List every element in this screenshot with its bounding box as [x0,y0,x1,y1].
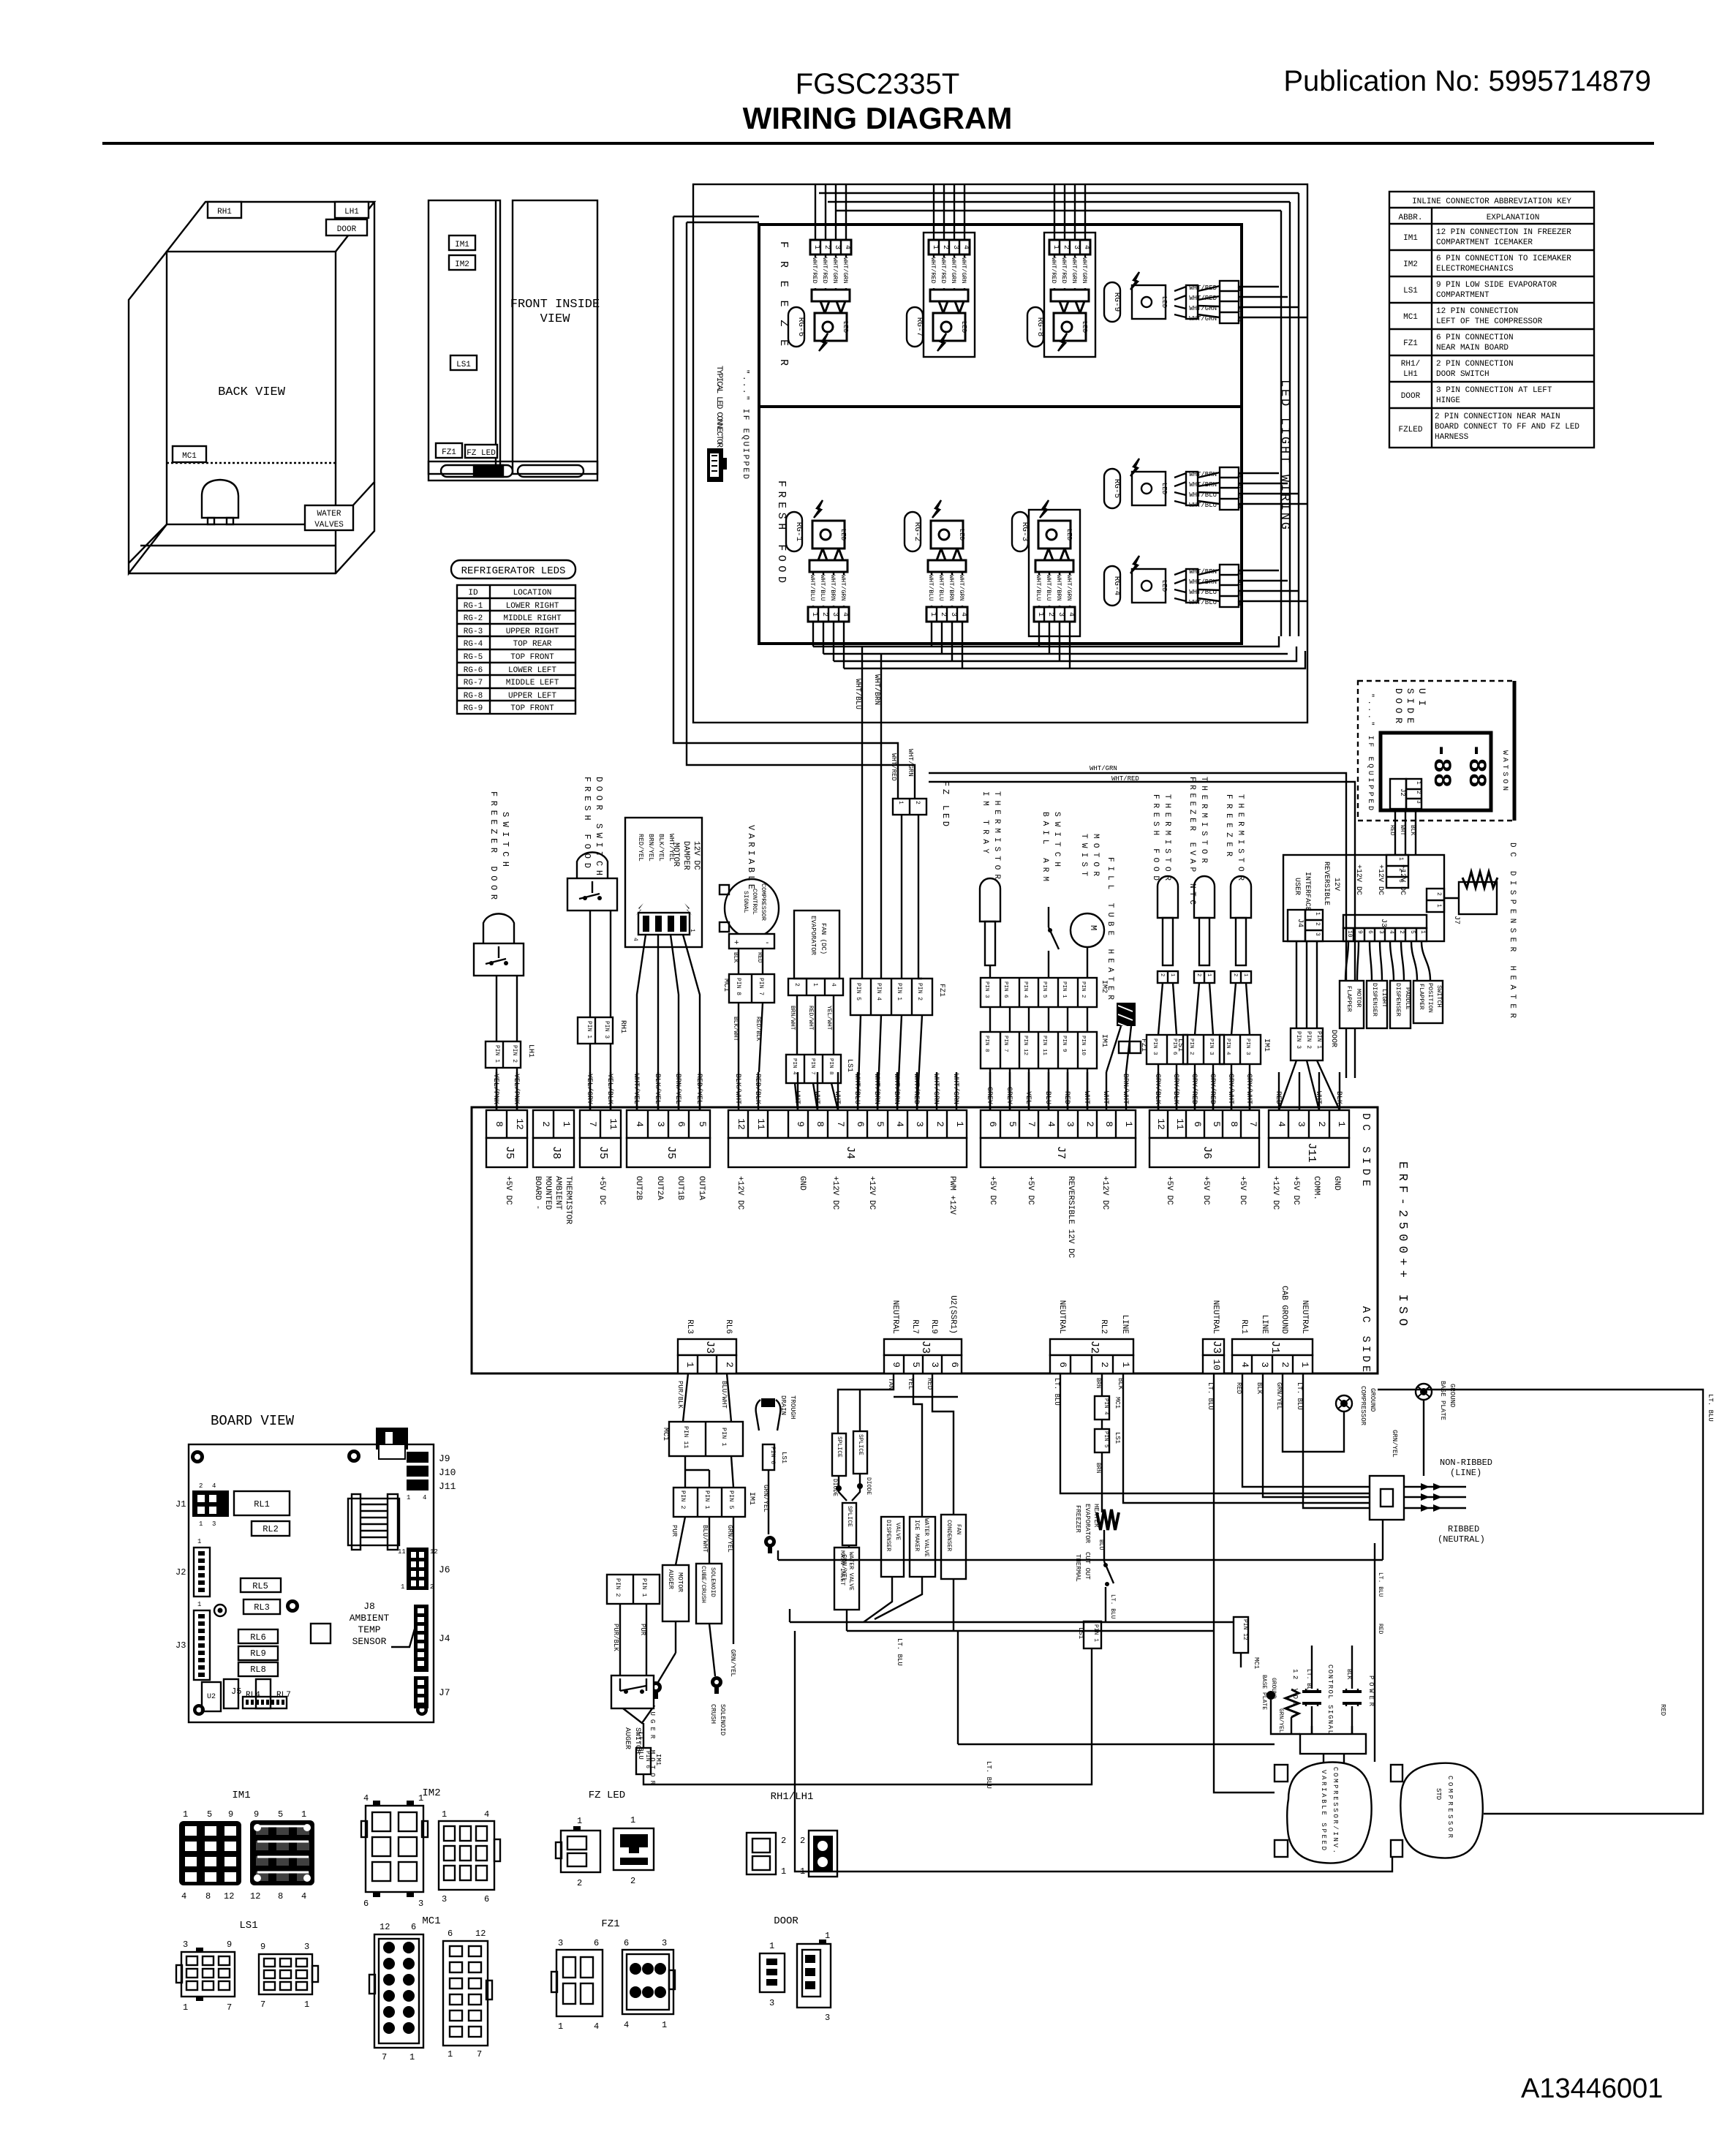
svg-text:BASE PLATE: BASE PLATE [1261,1675,1267,1710]
svg-text:+5V DC: +5V DC [1291,1176,1300,1205]
svg-text:7: 7 [382,2052,387,2062]
svg-text:U2: U2 [207,1693,216,1701]
svg-text:FAN (DC): FAN (DC) [820,923,827,954]
svg-text:IM1: IM1 [1100,1034,1108,1047]
svg-text:+5V DC: +5V DC [1165,1176,1174,1205]
svg-text:BLU: BLU [1043,1091,1051,1104]
svg-text:LH1: LH1 [344,208,359,216]
svg-text:3: 3 [1259,1362,1270,1368]
svg-text:INTERFACE: INTERFACE [1303,872,1311,911]
svg-text:1: 1 [1415,781,1421,785]
svg-text:BRN/WHT: BRN/WHT [789,1006,796,1030]
svg-text:PIN 2: PIN 2 [679,1490,687,1509]
svg-text:PIN 2: PIN 2 [916,983,923,1000]
svg-text:J7: J7 [439,1687,450,1698]
svg-text:3: 3 [442,1894,447,1904]
svg-text:J3: J3 [1210,1341,1223,1354]
svg-text:1: 1 [812,983,818,987]
svg-text:SPLICE: SPLICE [846,1506,853,1527]
svg-text:BLU: BLU [1098,1539,1104,1550]
svg-text:LS1: LS1 [1114,1432,1121,1444]
svg-text:BACK VIEW: BACK VIEW [218,385,286,399]
svg-text:2: 2 [1232,973,1238,976]
svg-text:12V DC: 12V DC [692,841,701,870]
svg-text:NEAR MAIN BOARD: NEAR MAIN BOARD [1436,344,1509,353]
svg-text:11: 11 [755,1118,766,1130]
svg-text:1: 1 [1242,973,1248,976]
svg-text:STD: STD [1435,1788,1442,1800]
svg-text:WHT/GRN: WHT/GRN [907,749,914,777]
svg-text:1: 1 [577,1816,582,1826]
svg-text:CUT OUT: CUT OUT [1084,1552,1091,1580]
svg-text:PUR/BLK: PUR/BLK [612,1624,619,1651]
svg-text:GND: GND [1332,1176,1341,1191]
svg-text:2: 2 [1280,1362,1291,1368]
svg-text:BLK/WHT: BLK/WHT [733,1074,742,1104]
svg-text:4: 4 [830,983,837,987]
svg-text:2: 2 [724,1362,735,1368]
svg-text:RL2: RL2 [1099,1319,1108,1334]
svg-text:4: 4 [624,2020,629,2030]
svg-text:PIN 7: PIN 7 [1003,1036,1008,1052]
svg-text:+12V DC: +12V DC [831,1176,839,1210]
svg-text:FZ1: FZ1 [601,1918,619,1930]
svg-text:MIDDLE LEFT: MIDDLE LEFT [506,679,559,687]
svg-text:MC1: MC1 [1253,1657,1260,1669]
svg-text:6: 6 [676,1121,687,1127]
svg-text:GRN/YEL: GRN/YEL [762,1485,769,1512]
svg-text:LOCATION: LOCATION [513,589,552,598]
svg-text:J6: J6 [1201,1146,1213,1159]
svg-text:Publication No: 5995714879: Publication No: 5995714879 [1283,65,1651,97]
svg-text:RG-6: RG-6 [796,317,805,336]
svg-text:WIRING DIAGRAM: WIRING DIAGRAM [743,101,1013,135]
svg-text:PIN 6: PIN 6 [1003,981,1008,998]
svg-text:FZ1: FZ1 [1403,339,1418,348]
svg-text:TAN: TAN [887,1378,894,1390]
svg-text:BRN: BRN [1095,1378,1101,1389]
svg-text:-88: -88 [1427,743,1454,788]
svg-text:6: 6 [484,1894,489,1904]
svg-text:12: 12 [514,1118,525,1130]
svg-text:COMPRESSOR: COMPRESSOR [1359,1386,1367,1426]
svg-text:1: 1 [1336,1121,1347,1127]
svg-text:-88: -88 [1462,743,1490,788]
svg-text:RIBBED: RIBBED [1448,1524,1479,1534]
svg-text:+12V DC: +12V DC [1100,1176,1109,1210]
svg-text:DOOR: DOOR [774,1915,798,1927]
svg-text:NEUTRAL: NEUTRAL [891,1300,899,1334]
svg-text:MC1: MC1 [661,1428,669,1441]
svg-text:RG-3: RG-3 [1020,522,1029,541]
svg-text:+5V DC: +5V DC [1238,1176,1247,1205]
svg-text:RL9: RL9 [929,1319,938,1334]
svg-text:1: 1 [197,1601,201,1608]
svg-text:RED: RED [1274,1091,1282,1104]
svg-text:3: 3 [655,1121,666,1127]
svg-text:PIN 11: PIN 11 [1041,1036,1047,1056]
svg-text:FLAPPER: FLAPPER [1345,986,1353,1012]
svg-text:2: 2 [1397,868,1404,872]
svg-text:RG-2: RG-2 [913,522,921,541]
svg-text:BLK: BLK [1409,825,1416,836]
svg-text:VALVES: VALVES [314,521,344,529]
svg-text:(NEUTRAL): (NEUTRAL) [1438,1534,1485,1545]
svg-text:+12V DC: +12V DC [1271,1176,1280,1210]
svg-text:3 PIN CONNECTION AT LEFT: 3 PIN CONNECTION AT LEFT [1436,386,1552,395]
svg-text:PIN 10: PIN 10 [1080,1036,1086,1056]
svg-text:4: 4 [181,1891,186,1901]
svg-text:RED: RED [1659,1704,1666,1716]
svg-text:OUT1B: OUT1B [676,1176,684,1200]
svg-text:1: 1 [301,1809,306,1820]
svg-text:IM1: IM1 [1262,1039,1270,1052]
svg-text:PIN 2: PIN 2 [1305,1031,1312,1049]
svg-text:2: 2 [1196,973,1201,976]
svg-text:DISPENSER: DISPENSER [885,1520,891,1551]
svg-text:LT. BLU: LT. BLU [1109,1594,1116,1619]
svg-text:RED: RED [1377,1624,1383,1635]
svg-text:REFRIGERATOR LEDS: REFRIGERATOR LEDS [461,565,566,577]
svg-text:RG-4: RG-4 [1112,576,1121,596]
svg-text:PIN 5: PIN 5 [1103,1431,1109,1448]
svg-text:LT. BLU: LT. BLU [1053,1378,1060,1406]
svg-text:7: 7 [835,1121,846,1127]
svg-text:BOARD CONNECT TO FF AND FZ LED: BOARD CONNECT TO FF AND FZ LED [1435,423,1579,431]
svg-text:FZ1: FZ1 [442,448,456,457]
svg-text:M: M [1088,925,1098,930]
svg-text:WHT/GRN: WHT/GRN [951,1074,960,1104]
svg-text:LOWER RIGHT: LOWER RIGHT [506,602,559,611]
svg-text:1: 1 [1314,912,1321,916]
svg-text:AUGER: AUGER [623,1727,631,1749]
svg-text:6: 6 [1367,930,1373,934]
svg-text:1: 1 [897,801,904,804]
svg-text:+5V DC: +5V DC [988,1176,997,1205]
svg-text:PIN 4: PIN 4 [1022,981,1028,998]
svg-text:RED: RED [1389,825,1395,836]
svg-text:TEMP: TEMP [358,1624,380,1635]
svg-text:DISPENSER: DISPENSER [1371,983,1378,1017]
svg-text:PIN 8: PIN 8 [983,1036,989,1052]
svg-text:WHT/BLU: WHT/BLU [1189,589,1217,596]
svg-text:6: 6 [855,1121,866,1127]
svg-text:EVAPORATOR: EVAPORATOR [1084,1504,1091,1544]
svg-text:6: 6 [448,1929,453,1939]
svg-text:11: 11 [1174,1118,1185,1130]
svg-text:DIODE: DIODE [831,1479,838,1496]
svg-text:5: 5 [910,1362,921,1368]
svg-text:RL9: RL9 [250,1648,266,1659]
svg-text:AC SIDE: AC SIDE [1359,1306,1372,1372]
svg-text:TYPICAL LED CONNECTOR: TYPICAL LED CONNECTOR [714,366,723,448]
svg-text:SENSOR: SENSOR [352,1636,387,1647]
svg-text:PIN 5: PIN 5 [855,983,861,1000]
svg-text:3: 3 [1065,1121,1076,1127]
svg-text:1: 1 [448,2049,453,2059]
svg-text:GROUND: GROUND [1369,1388,1376,1411]
svg-text:7: 7 [587,1121,598,1127]
svg-text:+12V DC: +12V DC [736,1176,744,1210]
svg-text:J2: J2 [175,1567,186,1578]
svg-text:4: 4 [1276,1121,1287,1127]
svg-text:2: 2 [540,1121,551,1127]
svg-text:J6: J6 [439,1564,450,1575]
svg-text:RL1: RL1 [1239,1319,1248,1334]
svg-text:2 PIN CONNECTION: 2 PIN CONNECTION [1436,360,1514,369]
svg-text:+5V DC: +5V DC [504,1176,513,1205]
svg-text:3: 3 [1415,800,1421,804]
svg-text:1: 1 [1120,1362,1131,1368]
svg-text:RG-3: RG-3 [464,627,483,636]
svg-text:9: 9 [254,1809,259,1820]
svg-text:2: 2 [1314,922,1321,926]
svg-text:9: 9 [227,1940,232,1950]
svg-text:FLAPPER: FLAPPER [1418,984,1425,1010]
svg-text:THERMISTOR: THERMISTOR [564,1176,573,1224]
svg-text:PIN 7: PIN 7 [758,978,764,995]
svg-text:WHT/GRN: WHT/GRN [1090,765,1117,772]
svg-text:RED/WHT: RED/WHT [807,1006,814,1030]
svg-text:9: 9 [891,1362,902,1368]
svg-text:1: 1 [684,1362,695,1368]
svg-text:PIN 11: PIN 11 [682,1426,690,1449]
svg-text:GRN/YEL: GRN/YEL [1275,1382,1283,1410]
svg-text:YEL/WHT: YEL/WHT [826,1006,832,1030]
svg-text:6: 6 [411,1922,416,1932]
svg-text:RG-9: RG-9 [1112,293,1121,312]
svg-text:AMBIENT: AMBIENT [350,1613,390,1624]
svg-text:PIN 3: PIN 3 [603,1021,610,1039]
svg-text:1: 1 [630,1815,635,1825]
svg-text:PIN 6: PIN 6 [769,1447,776,1464]
svg-text:DAMPER: DAMPER [682,841,690,870]
svg-text:1: 1 [769,1941,774,1951]
svg-text:AMBIENT: AMBIENT [554,1176,562,1210]
svg-text:LS1: LS1 [456,361,471,369]
svg-text:YEL: YEL [1024,1091,1032,1104]
svg-text:3: 3 [1296,1121,1307,1127]
svg-text:BLU/WHT: BLU/WHT [720,1381,728,1409]
svg-text:5: 5 [1007,1121,1018,1127]
svg-text:2: 2 [630,1876,635,1886]
svg-text:J5: J5 [231,1686,241,1697]
svg-text:RH1/: RH1/ [1401,360,1420,369]
svg-text:WATER: WATER [317,510,341,519]
svg-text:IM1: IM1 [747,1492,755,1505]
svg-text:RL6: RL6 [250,1632,266,1643]
svg-text:RL8: RL8 [250,1665,266,1675]
svg-text:PIN 1: PIN 1 [586,1021,592,1039]
svg-text:PIN 1: PIN 1 [1315,1031,1322,1049]
svg-text:CAB GROUND: CAB GROUND [1280,1286,1288,1334]
svg-text:2: 2 [1099,1362,1110,1368]
svg-text:LH1: LH1 [526,1044,535,1058]
svg-text:1: 1 [304,1999,309,2010]
svg-text:6: 6 [987,1121,998,1127]
svg-text:8: 8 [205,1891,211,1901]
svg-text:J2: J2 [1399,788,1406,796]
svg-text:PIN 3: PIN 3 [1208,1039,1214,1055]
svg-text:PIN 1: PIN 1 [720,1428,728,1447]
svg-text:7: 7 [227,2002,232,2013]
svg-text:RED: RED [1235,1382,1242,1394]
svg-text:4: 4 [894,1121,905,1127]
svg-text:6 PIN CONNECTION TO ICEMAKER: 6 PIN CONNECTION TO ICEMAKER [1436,255,1571,263]
svg-text:4: 4 [1388,930,1394,934]
svg-text:12: 12 [380,1922,390,1932]
svg-text:RED: RED [756,952,763,963]
svg-text:WHT/RED: WHT/RED [1189,295,1217,302]
svg-text:WHT/BRN: WHT/BRN [1189,471,1217,478]
svg-text:LS1: LS1 [780,1452,788,1463]
svg-text:J7: J7 [1452,916,1460,924]
svg-text:IM2: IM2 [455,260,469,269]
svg-text:PIN 4: PIN 4 [1225,1039,1231,1055]
svg-text:PIN 2: PIN 2 [1188,1039,1194,1055]
svg-text:3: 3 [929,1362,940,1368]
svg-text:WHT/YEL: WHT/YEL [668,834,675,862]
svg-text:IM2: IM2 [422,1787,440,1799]
svg-text:VIEW: VIEW [540,312,571,326]
svg-text:ABBR.: ABBR. [1398,214,1422,222]
svg-text:1: 1 [442,1809,447,1820]
svg-text:VALVE: VALVE [894,1523,901,1540]
svg-text:2: 2 [199,1482,203,1490]
svg-text:GROUND: GROUND [1270,1678,1277,1699]
svg-text:J5: J5 [665,1146,677,1159]
svg-text:+12V DC: +12V DC [1376,864,1384,895]
svg-text:WHT: WHT [1399,825,1405,836]
svg-text:LINE: LINE [1260,1315,1269,1335]
svg-text:RG-7: RG-7 [915,317,924,336]
svg-text:7: 7 [260,1999,265,2010]
svg-text:2: 2 [1316,1121,1327,1127]
svg-text:RG-8: RG-8 [1035,317,1044,336]
svg-text:BLK: BLK [1117,1378,1124,1390]
svg-text:NON-RIBBED: NON-RIBBED [1440,1458,1492,1468]
svg-text:11: 11 [608,1118,619,1130]
svg-text:PIN 5: PIN 5 [728,1490,735,1509]
svg-text:3: 3 [1314,932,1321,936]
svg-text:5: 5 [697,1121,708,1127]
svg-text:9: 9 [260,1942,265,1952]
svg-text:2: 2 [1159,973,1165,976]
svg-text:LT. BLU: LT. BLU [1296,1382,1303,1410]
svg-text:6: 6 [1192,1121,1203,1127]
svg-text:PIN 4: PIN 4 [1103,1398,1109,1415]
svg-text:DRAIN: DRAIN [779,1395,787,1415]
svg-text:WHT/GRN: WHT/GRN [932,1074,940,1104]
svg-text:PIN 8: PIN 8 [735,978,741,995]
svg-text:WHT/BLU: WHT/BLU [853,679,862,709]
svg-text:5: 5 [207,1809,212,1820]
svg-text:PIN 9: PIN 9 [1061,1036,1067,1052]
svg-text:MC1: MC1 [422,1915,440,1927]
svg-text:J9: J9 [439,1453,450,1464]
svg-text:ICE MAKER: ICE MAKER [913,1520,920,1551]
svg-text:+12V DC: +12V DC [867,1176,876,1210]
svg-text:CONTROL SIGNAL: CONTROL SIGNAL [1326,1665,1334,1734]
svg-text:DOOR: DOOR [337,225,357,234]
svg-text:PADDLE: PADDLE [1404,987,1411,1010]
svg-text:5: 5 [1211,1121,1222,1127]
svg-text:12: 12 [475,1929,486,1939]
svg-text:+5V DC: +5V DC [1026,1176,1035,1205]
svg-text:8: 8 [1228,1121,1239,1127]
svg-text:PIN 1: PIN 1 [703,1490,711,1509]
svg-text:3: 3 [183,1940,188,1950]
svg-text:PIN 12: PIN 12 [1242,1619,1248,1640]
svg-text:BRN: BRN [1095,1463,1101,1474]
svg-text:POSITION: POSITION [1427,983,1434,1013]
svg-text:RG-5: RG-5 [464,653,483,662]
svg-text:1: 1 [1123,1121,1134,1127]
svg-text:J3: J3 [1379,919,1387,927]
svg-text:3: 3 [1378,930,1384,934]
svg-text:YEL: YEL [907,1378,914,1390]
svg-text:HEATER: HEATER [1092,1504,1100,1528]
svg-text:LS1: LS1 [239,1920,257,1931]
svg-text:12: 12 [736,1118,747,1130]
svg-text:WHT/BRN: WHT/BRN [1189,481,1217,489]
svg-text:2: 2 [935,1121,945,1127]
svg-text:J3: J3 [703,1341,716,1354]
svg-text:"..." IF EQUIPPED: "..." IF EQUIPPED [741,369,750,479]
svg-text:PIN 1: PIN 1 [896,983,902,1000]
svg-text:1: 1 [558,2021,563,2032]
svg-text:WHT/GRN: WHT/GRN [1189,315,1217,323]
svg-text:LS1: LS1 [1403,287,1418,295]
svg-text:LS1: LS1 [1176,1039,1184,1052]
svg-text:RED/YEL: RED/YEL [637,834,644,862]
svg-text:3: 3 [1397,879,1404,883]
svg-text:1: 1 [407,1494,410,1501]
svg-text:TOP REAR: TOP REAR [513,640,552,649]
svg-text:12 PIN CONNECTION IN FREEZER: 12 PIN CONNECTION IN FREEZER [1436,228,1571,237]
svg-text:12: 12 [1155,1118,1166,1130]
svg-text:9: 9 [228,1809,233,1820]
svg-text:BLU/WHT: BLU/WHT [701,1525,709,1553]
svg-text:HINGE: HINGE [1436,396,1460,405]
svg-text:COMPRESSOR/INV.: COMPRESSOR/INV. [1332,1767,1339,1853]
svg-text:PUR: PUR [671,1525,678,1537]
svg-text:PIN 1: PIN 1 [494,1045,500,1063]
svg-text:BOARD VIEW: BOARD VIEW [211,1413,295,1429]
svg-text:SPLICE: SPLICE [836,1436,842,1458]
svg-text:MIDDLE RIGHT: MIDDLE RIGHT [503,614,562,623]
svg-text:PUR/BLK: PUR/BLK [676,1381,684,1409]
svg-text:WHT/RED: WHT/RED [1111,775,1139,783]
svg-text:RED: RED [926,1378,933,1390]
svg-text:GRN/YEL: GRN/YEL [726,1525,733,1553]
svg-text:ELECTROMECHANICS: ELECTROMECHANICS [1436,265,1514,274]
svg-text:FREEZER: FREEZER [1074,1505,1081,1533]
svg-text:LOWER LEFT: LOWER LEFT [508,666,556,675]
svg-text:2: 2 [430,1583,434,1591]
svg-text:1: 1 [1435,904,1442,908]
svg-text:9 PIN LOW SIDE EVAPORATOR: 9 PIN LOW SIDE EVAPORATOR [1436,281,1557,290]
svg-text:OUT1A: OUT1A [697,1176,706,1200]
svg-text:6: 6 [594,1938,599,1948]
svg-text:WHT/BLU: WHT/BLU [1189,502,1217,509]
svg-text:DISPENSER: DISPENSER [1394,983,1402,1017]
svg-text:4: 4 [1239,1362,1250,1368]
svg-text:1: 1 [1397,857,1404,861]
svg-text:2: 2 [1415,791,1421,794]
svg-text:6 PIN CONNECTION: 6 PIN CONNECTION [1436,333,1514,342]
svg-text:IM2: IM2 [1403,260,1418,269]
